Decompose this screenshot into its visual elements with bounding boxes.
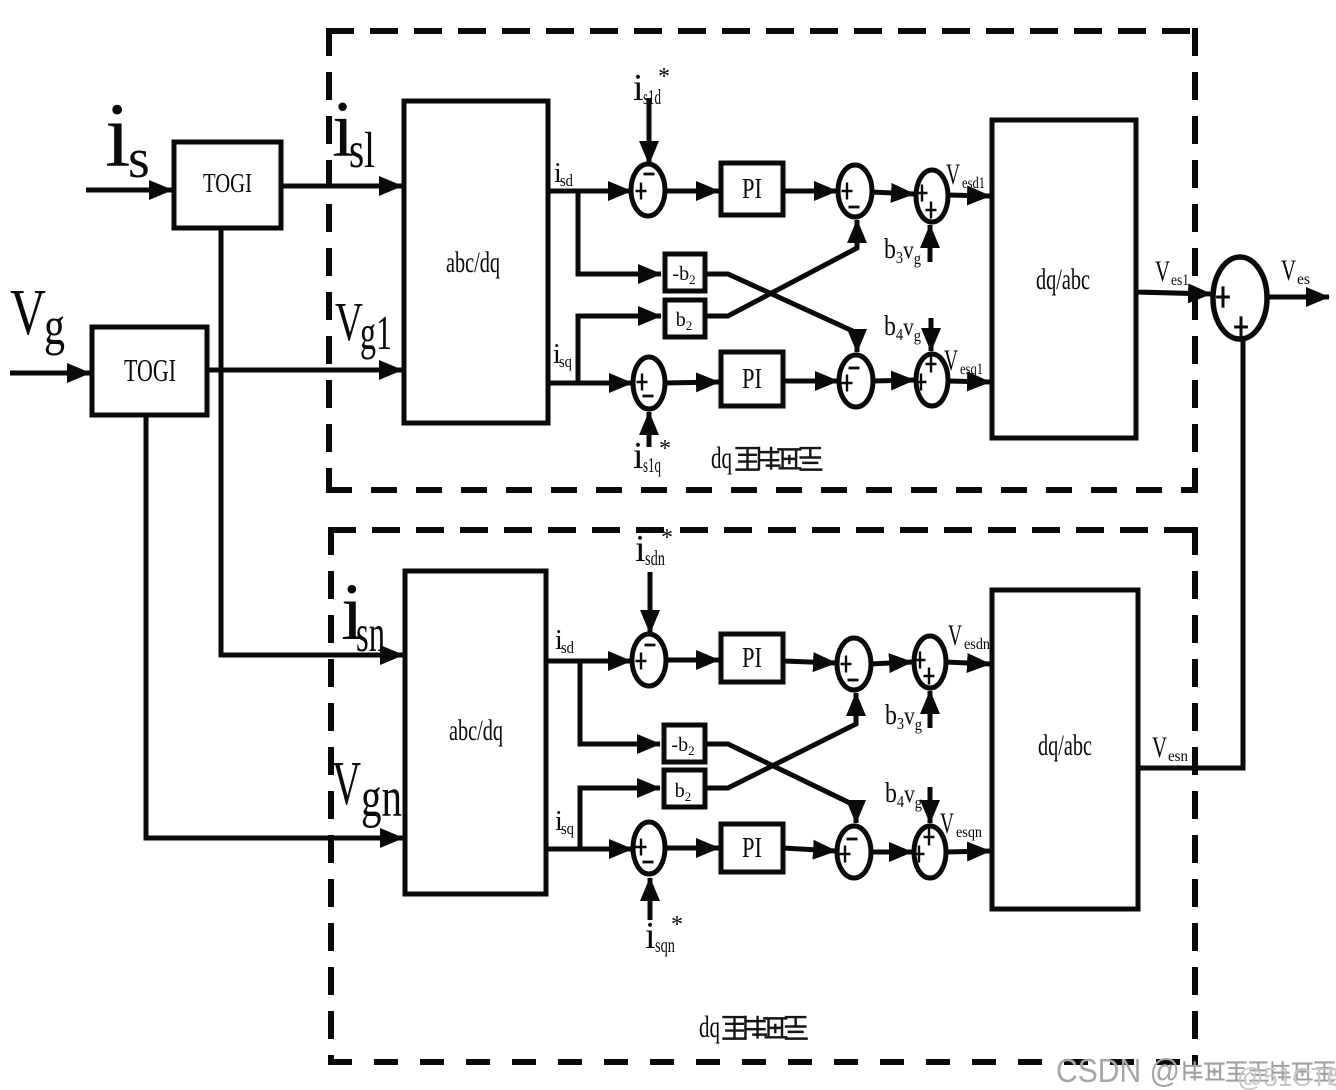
wire upper q PI to second summer [783,379,838,384]
block b2 gain (lower) [664,770,705,807]
svg-text:V: V [1155,255,1170,288]
svg-text:dq: dq [699,1009,720,1044]
summer lower q first (+/-) [633,822,665,874]
block PI (upper d-axis) [721,163,783,215]
wire V_g input to lower TOGI [10,371,90,376]
label V_g1 [335,291,392,360]
summer upper q second (-/+) [839,355,873,407]
wire V_esn feedback from lower dq/abc up to output summer [1138,340,1243,768]
svg-text:dq: dq [711,440,732,475]
svg-text:V: V [332,750,361,818]
adder lower d b3vg (+/+) [914,636,946,688]
svg-text:esqn: esqn [956,824,982,841]
wire lower d adder to dq/abc (V_esdn) [945,662,990,664]
block PI (lower d-axis) [721,634,783,682]
label V_gn [332,750,402,829]
svg-text:PI: PI [742,173,762,205]
wire lower d PI to second summer [783,661,836,663]
adder upper d b3vg (+/+) [916,170,948,222]
block TOGI (upper, current channel) [174,142,281,228]
wire lower TOGI to abc/dq (V_g1) [207,368,402,373]
wire lower q adder to dq/abc (V_esqn) [946,851,990,852]
wire upper q second summer to b4vg adder [872,380,914,381]
svg-text:*: * [661,525,673,551]
wire i_s1d* reference into upper d summer [647,98,652,164]
svg-text:sd: sd [561,638,574,657]
svg-text:i: i [105,84,131,186]
output summer V_es (+/+) [1213,257,1267,339]
wire -b2 cross down to q summer (lower) [705,744,856,823]
svg-text:V: V [944,344,958,377]
block PI (lower q-axis) [721,824,783,872]
watermark CSDN @ author [1056,1052,1336,1090]
wire i_sq output of lower abc/dq to summer [546,847,632,852]
svg-text:*: * [659,436,671,462]
svg-text:TOGI: TOGI [203,168,252,198]
block -b2 gain (upper) [665,254,705,291]
svg-text:es: es [1297,271,1310,288]
wire upper TOGI down to lower abc/dq (i_sn) [221,228,403,655]
svg-text:sq: sq [559,352,572,371]
svg-text:i: i [645,915,656,957]
svg-text:esdn: esdn [964,636,990,653]
dashed box: upper dq decoupling control region [326,28,1198,493]
wire upper TOGI to abc/dq (i_s1) [281,184,402,189]
wire lower q summer to PI [664,846,719,851]
wire dq/abc output V_es1 to output summer [1136,292,1211,294]
wire i_sqn* reference into lower q summer [648,878,653,920]
svg-text:esq1: esq1 [960,361,983,378]
wire branch i_sd down to -b2 (lower) [580,661,660,744]
label dq decoupling control (lower, Chinese) [699,1009,808,1044]
svg-text:PI: PI [742,642,762,674]
summer upper q first (+/-) [633,357,665,409]
wire branch i_sq up to b2 (upper) [578,316,661,383]
wire upper q summer to PI [664,382,719,383]
svg-text:*: * [671,912,683,938]
wire upper d second summer to b3vg adder [871,192,914,194]
block PI (upper q-axis) [721,352,783,406]
svg-text:i: i [633,67,644,109]
label i_s1 [332,86,375,179]
svg-text:gn: gn [361,767,402,829]
svg-text:sq: sq [561,819,574,838]
svg-text:s: s [128,128,150,190]
svg-text:*: * [658,64,670,90]
label V_g [10,276,65,356]
svg-text:abc/dq: abc/dq [449,714,503,747]
wire lower TOGI down to lower abc/dq (V_gn) [146,414,403,838]
wire upper d summer to PI [663,189,719,194]
svg-text:V: V [10,276,46,349]
svg-text:PI: PI [742,363,762,395]
wire upper d adder to dq/abc (V_esd1) [948,195,990,196]
block b2 gain (upper) [665,300,705,337]
svg-text:i: i [635,528,646,570]
svg-text:PI: PI [742,832,762,864]
svg-text:g1: g1 [360,305,392,360]
svg-text:CSDN @: CSDN @ [1056,1052,1180,1089]
svg-text:g: g [44,296,65,356]
summer upper d second (+/-) [838,165,872,217]
summer lower q second (-/+) [837,826,871,878]
wire lower q PI to second summer [783,848,836,851]
wire i_sdn* reference into lower d summer [648,572,653,633]
svg-text:V: V [948,619,962,652]
wire i_sq output of upper abc/dq to summer [548,381,632,386]
adder upper q b4vg (+/+) [916,354,949,406]
svg-text:V: V [946,158,960,191]
wire branch i_sq up to b2 (lower) [580,788,660,849]
summer upper d first (+/-) [631,164,665,216]
svg-text:dq/abc: dq/abc [1038,729,1092,762]
svg-text:esd1: esd1 [962,175,985,192]
svg-text:V: V [940,807,954,840]
summer lower d second (+/-) [837,638,871,690]
wire lower d second summer to b3vg adder [870,662,912,664]
wire i_s input to upper TOGI [86,188,172,193]
label i_s [105,84,150,190]
wire b4vg into adder (upper) [929,318,934,351]
label dq decoupling control (upper, Chinese) [711,440,822,475]
adder lower q b4vg (+/+) [914,826,947,878]
wire b4vg into adder (lower) [928,787,933,823]
wire b2 cross up to d summer (lower) [705,693,856,788]
svg-text:es1: es1 [1171,272,1189,289]
wire lower d summer to PI [664,658,719,663]
svg-text:V: V [1281,254,1296,287]
svg-text:TOGI: TOGI [124,352,176,388]
block dq/abc (upper) [992,120,1136,438]
block TOGI (lower, voltage channel) [92,327,207,415]
wire i_s1q* reference into upper q summer [647,412,652,447]
wire lower q second summer to b4vg adder [870,850,912,855]
dashed box: lower dq decoupling control region [328,527,1198,1065]
svg-text:i: i [633,435,644,477]
wire -b2 cross down to q summer (upper) [705,274,857,352]
block -b2 gain (lower) [664,725,705,762]
wire b3vg into adder (upper) [928,225,933,262]
svg-text:sn: sn [356,605,385,663]
wire upper d PI to second summer [783,189,837,194]
block dq/abc (lower) [992,590,1138,909]
label i_sn [341,566,385,663]
block abc/dq (upper) [404,101,548,423]
svg-text:esn: esn [1168,748,1188,765]
wire i_sd output of upper abc/dq to summer [548,189,631,194]
wire b3vg into adder (lower) [928,691,933,728]
svg-text:abc/dq: abc/dq [446,246,500,279]
wire i_sd output of lower abc/dq to summer [546,659,631,664]
svg-text:@51CTO: @51CTO [1237,1062,1336,1090]
svg-text:dq/abc: dq/abc [1036,263,1090,296]
wire b2 cross up to d summer (upper) [705,220,857,316]
svg-text:V: V [335,291,363,352]
block abc/dq (lower) [405,571,546,894]
svg-text:sd: sd [560,171,573,190]
svg-text:V: V [1152,731,1167,764]
wire V_es output [1267,295,1329,300]
wire upper q adder to dq/abc (V_esq1) [948,381,990,382]
svg-text:sl: sl [349,123,375,179]
wire branch i_sd down to -b2 (upper) [578,191,661,274]
summer lower d first (+/-) [632,634,666,686]
